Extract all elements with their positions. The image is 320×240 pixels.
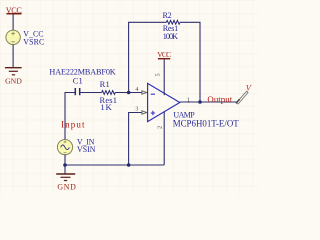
junction node at pin4/R1/R2: [127, 91, 131, 95]
resistor R2 zigzag: [166, 20, 180, 24]
junction node at output/feedback: [198, 100, 202, 104]
svg-text:Input: Input: [61, 119, 85, 129]
capacitor C1 plates: [75, 88, 79, 95]
svg-text:MCP6H01T-E/OT: MCP6H01T-E/OT: [173, 119, 240, 129]
feedback wire right and down to output: [180, 22, 200, 102]
svg-text:GND: GND: [5, 76, 22, 85]
wire C1 to R1: [80, 92, 101, 94]
sheet background: [0, 0, 259, 195]
svg-text:100K: 100K: [163, 32, 178, 41]
pin 3 wire from below: [129, 113, 142, 166]
svg-text:VSIN: VSIN: [77, 145, 96, 154]
svg-text:R2: R2: [163, 11, 172, 20]
svg-text:3: 3: [135, 107, 138, 113]
pin 4 arrow: [142, 91, 147, 94]
ground GND (top-left) bars: [5, 67, 22, 69]
V_CC plus mark: [11, 32, 15, 36]
resistor R1 zigzag: [102, 91, 116, 95]
junction node at pin3/bottom wire: [127, 163, 131, 167]
power port VCC (top-left) bar: [7, 13, 22, 15]
ground GND (bottom) bars: [56, 173, 75, 175]
bottom wire: [65, 164, 164, 166]
wire R1 to node: [115, 92, 142, 94]
svg-text:VSRC: VSRC: [23, 37, 44, 46]
svg-text:5: 5: [155, 73, 161, 76]
pin 2 wire from op-amp down to bottom wire: [163, 111, 165, 165]
wire input node up to capacitor: [65, 93, 75, 140]
wire VCC bar to V_CC source: [12, 14, 14, 30]
feedback wire up from node: [129, 22, 167, 92]
svg-text:2: 2: [158, 126, 164, 129]
voltage source V_CC (VSRC) circle: [6, 30, 20, 44]
wire V_IN to bottom wire and GND: [64, 155, 66, 174]
V_IN sine wave: [61, 145, 70, 150]
wire V_CC source to GND: [12, 45, 14, 68]
svg-text:V: V: [246, 83, 252, 92]
op-amp minus mark: [151, 93, 155, 95]
svg-text:VCC: VCC: [157, 50, 171, 59]
svg-text:GND: GND: [57, 183, 76, 192]
V_CC minus mark: [11, 41, 15, 43]
svg-text:4: 4: [135, 87, 138, 93]
svg-text:Output: Output: [207, 94, 232, 104]
voltage source V_IN (VSIN) circle: [57, 140, 72, 155]
svg-text:1K: 1K: [100, 102, 112, 112]
pin 3 arrow: [142, 111, 147, 114]
svg-text:C1: C1: [73, 75, 83, 85]
pin 5 wire from VCC to op-amp: [163, 59, 165, 95]
output pin wire: [180, 101, 239, 103]
power port VCC (middle) bar: [158, 58, 170, 60]
V_IN minus mark: [64, 152, 67, 154]
op-amp plus mark: [151, 111, 155, 115]
V_IN plus mark: [64, 141, 67, 144]
probe pen: [236, 91, 248, 104]
op-amp U1 triangle: [148, 83, 180, 121]
svg-text:R1: R1: [100, 79, 110, 89]
junction node at V_IN/bottom wire: [63, 163, 67, 167]
svg-text:1: 1: [187, 97, 190, 103]
